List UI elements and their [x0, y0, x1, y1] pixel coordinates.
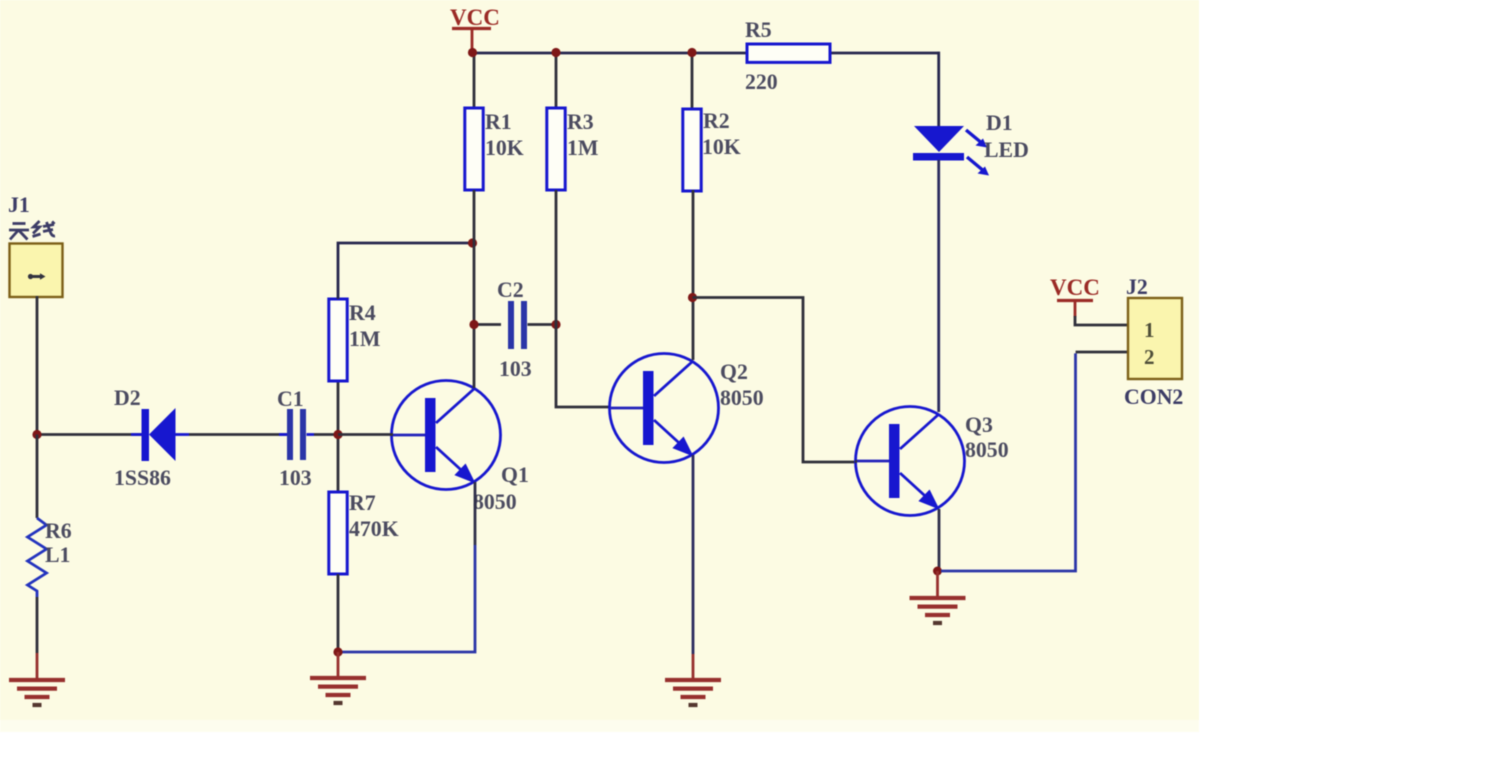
wire: LED cathode down to Q3 collector	[937, 160, 940, 412]
wire: detector node to D2 cathode	[37, 433, 142, 436]
resistor R2	[683, 109, 701, 191]
wire: ground node to J2 pin 2 (blue)	[941, 353, 1076, 571]
wire: C1 to Q1 base node	[314, 433, 338, 436]
capacitor C1	[279, 409, 314, 460]
power VCC (top)	[450, 5, 500, 53]
svg-text:8050: 8050	[720, 386, 764, 410]
wire: bus corner down to LED anode	[937, 52, 940, 127]
svg-text:Q3: Q3	[965, 413, 993, 437]
svg-text:10K: 10K	[702, 135, 741, 159]
J1 pin symbol	[29, 275, 42, 278]
power VCC (J2)	[1050, 275, 1100, 317]
node: junction bus/R3	[551, 48, 560, 57]
wire: bus to R1 top	[473, 53, 476, 108]
ground (antenna)	[36, 653, 39, 680]
node: junction Q3 emitter / J2 return	[933, 567, 942, 576]
diode D1 LED	[913, 126, 989, 176]
svg-text:470K: 470K	[349, 517, 399, 541]
label 天线	[9, 221, 55, 240]
resistor R3	[547, 108, 565, 190]
svg-text:J1: J1	[8, 193, 30, 217]
svg-text:2: 2	[1144, 345, 1155, 369]
wire: Q3 emitter down to ground node	[938, 509, 941, 571]
svg-text:1: 1	[1144, 318, 1155, 342]
svg-text:8050: 8050	[473, 490, 517, 514]
wire: R3 down to Q2 base	[556, 190, 610, 407]
svg-text:10K: 10K	[485, 136, 524, 160]
wire: top VCC bus left of R5	[472, 52, 747, 55]
svg-text:Q2: Q2	[720, 360, 748, 384]
svg-text:103: 103	[499, 357, 532, 381]
node: junction C2 left / Q1 collector	[469, 320, 478, 329]
svg-text:D1: D1	[986, 111, 1013, 135]
svg-text:R2: R2	[703, 109, 730, 133]
resistor R5	[747, 44, 830, 62]
svg-text:C2: C2	[497, 278, 524, 302]
svg-text:D2: D2	[114, 386, 141, 410]
svg-text:VCC: VCC	[1050, 275, 1100, 300]
connector J2	[1128, 298, 1182, 379]
svg-text:1SS86: 1SS86	[114, 466, 171, 490]
diode D2	[131, 408, 189, 461]
svg-text:Q1: Q1	[501, 463, 529, 487]
svg-text:R3: R3	[567, 110, 594, 134]
ground (Q1/R7)	[337, 652, 340, 678]
resistor R4	[329, 299, 347, 381]
svg-text:1M: 1M	[567, 136, 598, 160]
wire: Q1 collector up through C2 node to R1	[473, 190, 476, 388]
node: junction R4 feedback / R1	[468, 238, 477, 247]
svg-text:L1: L1	[45, 543, 70, 567]
svg-text:C1: C1	[277, 387, 304, 411]
wire: R7 down to emitter ground rail	[337, 574, 340, 652]
wire: emitter to ground rail (blue)	[338, 545, 475, 652]
capacitor C2	[474, 301, 556, 349]
node: junction VCC/R1	[468, 48, 477, 57]
svg-text:R5: R5	[745, 18, 772, 42]
ground (Q2)	[692, 654, 695, 680]
ground (Q3)	[936, 571, 939, 598]
transistor Q3	[856, 407, 965, 516]
wire: Q2 collector up to R2	[692, 190, 695, 360]
svg-text:R1: R1	[485, 110, 512, 134]
svg-text:R4: R4	[349, 301, 376, 325]
wire: bus to R2 top	[691, 53, 694, 109]
resistor R7	[329, 492, 347, 574]
transistor Q1	[392, 381, 501, 490]
schematic background	[0, 0, 1199, 732]
wire: Q2 emitter down to ground	[692, 455, 695, 654]
svg-text:8050: 8050	[965, 438, 1009, 462]
wire: Q2 collector to Q3 base	[693, 298, 856, 463]
wire: VCC to J2 pin 1	[1075, 316, 1128, 325]
wire: D2 anode to C1	[189, 433, 287, 436]
svg-text:220: 220	[745, 70, 778, 94]
wire: Q3 base inside	[855, 460, 857, 463]
svg-text:VCC: VCC	[450, 5, 500, 30]
svg-text:R7: R7	[349, 491, 376, 515]
svg-text:103: 103	[279, 466, 312, 490]
resistor R6 / L1 zigzag	[28, 435, 47, 654]
svg-text:J2: J2	[1126, 275, 1148, 299]
node: junction R7/ground rail	[333, 647, 342, 656]
svg-text:1M: 1M	[349, 327, 380, 351]
svg-text:CON2: CON2	[1124, 385, 1183, 409]
wire: bus to R3 top	[555, 53, 558, 108]
resistor R1	[465, 108, 483, 190]
connector J1	[10, 244, 63, 298]
wire: base node up to R4	[337, 381, 340, 435]
node: junction C2 right / R3	[551, 320, 560, 329]
wire: top VCC bus right of R5	[830, 52, 940, 55]
svg-text:LED: LED	[984, 138, 1029, 162]
node: junction bus/R2	[687, 48, 696, 57]
wire: R4 top up and over to collector node	[338, 243, 472, 299]
wire: Q1 base	[338, 433, 393, 436]
wire: base node down to R7	[337, 435, 340, 493]
wire: J2 pin 2 stub	[1076, 351, 1128, 354]
node: junction antenna/D2/R6	[32, 430, 41, 439]
node: junction C1/R4/R7/Q1 base	[333, 430, 342, 439]
svg-text:R6: R6	[45, 519, 72, 543]
wire: Q1 emitter down	[474, 482, 477, 545]
node: junction Q2 collector / coupling	[688, 293, 697, 302]
wire: J1 down to detector node	[36, 296, 39, 434]
transistor Q2	[610, 354, 719, 463]
